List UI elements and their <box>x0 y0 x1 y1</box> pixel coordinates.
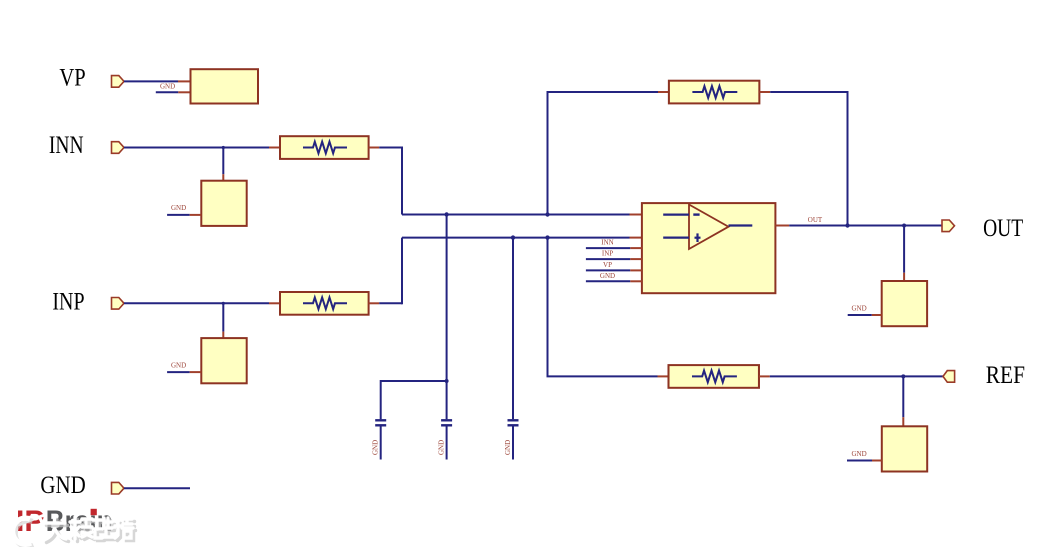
pin OUT stub <box>775 225 789 227</box>
wire U2 pin2 GND stub <box>156 91 191 93</box>
svg-text:VP: VP <box>59 65 85 92</box>
wire R2 to op-amp plus node <box>369 238 642 305</box>
port OUT <box>942 220 955 232</box>
wire GND stub of G4 <box>847 460 882 462</box>
port INN <box>112 142 125 154</box>
op-amp U1 triangle <box>689 205 729 250</box>
wire minus node up to feedback resistor R3 <box>547 92 669 215</box>
port VP <box>112 76 125 88</box>
pin 4 INP stub <box>586 258 642 260</box>
svg-text:OUT: OUT <box>983 215 1023 242</box>
wire GND stub of G1 <box>167 214 201 216</box>
resistor R3 (feedback) <box>669 81 759 104</box>
junction INN/G1 <box>222 146 225 149</box>
svg-text:REF: REF <box>986 362 1025 389</box>
wire OUT node to ground block G3 <box>903 226 905 282</box>
svg-text:GND: GND <box>600 272 615 280</box>
svg-text:INN: INN <box>601 239 613 247</box>
svg-text:GND: GND <box>504 440 512 455</box>
pin 6 GND stub <box>586 280 642 282</box>
capacitor C2 <box>441 420 452 459</box>
svg-text:GND: GND <box>438 440 446 455</box>
svg-text:GND: GND <box>852 450 867 458</box>
wire tee to capacitor C1 <box>381 380 447 419</box>
svg-text:INN: INN <box>49 132 84 159</box>
ground block G3 <box>882 281 927 326</box>
junction minus node / C-branch <box>444 212 448 216</box>
junction feedback top / minus node <box>545 212 549 216</box>
op-amp output line <box>729 224 753 226</box>
capacitor C3 <box>508 420 519 459</box>
logo i-dot red <box>91 509 97 515</box>
power block U2 (VP supply) <box>191 69 259 103</box>
wire plus node down to REF resistor R4 <box>547 238 669 377</box>
pin 5 VP stub <box>586 269 642 271</box>
svg-text:INP: INP <box>52 289 84 316</box>
junction REF / G4 <box>901 374 905 378</box>
svg-text:GND: GND <box>372 440 380 455</box>
wire GND port <box>124 487 190 489</box>
wire R4 to REF port <box>759 375 943 377</box>
wire REF node to ground block G4 <box>902 376 904 426</box>
svg-text:GND: GND <box>40 472 85 499</box>
wire R3 to output node <box>759 91 847 226</box>
capacitor C1 <box>375 420 386 459</box>
resistor R1 (INN series) <box>280 136 369 159</box>
wire op-amp output to OUT port <box>789 225 942 227</box>
svg-text:GND: GND <box>171 361 186 369</box>
wire GND stub of G2 <box>167 371 201 373</box>
wire INN port to R1 <box>124 147 280 149</box>
wire INP port to R2 <box>124 302 280 304</box>
ground block G4 <box>882 426 927 471</box>
junction C1 tee <box>445 379 449 383</box>
svg-text:GND: GND <box>160 83 175 91</box>
op-amp plus input line <box>663 233 700 242</box>
wire R1 to op-amp minus node <box>369 147 642 215</box>
svg-text:INP: INP <box>602 250 613 258</box>
resistor R2 (INP series) <box>280 292 369 315</box>
wire GND stub of G3 <box>848 314 882 316</box>
wire INP to ground block G2 <box>222 303 224 338</box>
svg-text:VP: VP <box>603 261 612 269</box>
junction plus node / C3 branch <box>511 235 515 239</box>
resistor R4 (REF) <box>669 365 759 388</box>
junction INP/G2 <box>222 302 225 305</box>
ground block G1 <box>201 181 246 226</box>
svg-text:OUT: OUT <box>808 216 823 224</box>
wire minus node down to capacitors <box>446 215 448 420</box>
port INP <box>112 298 125 310</box>
pin 3 INN stub <box>586 247 642 249</box>
junction output/feedback <box>845 223 849 227</box>
IPBrain logo <box>16 505 113 538</box>
logo white slash <box>13 514 47 531</box>
port GND <box>112 482 125 494</box>
wire INN to ground block G1 <box>222 148 224 181</box>
op-amp minus input line <box>663 214 699 216</box>
ground block G2 <box>201 338 246 383</box>
port REF <box>943 371 955 383</box>
svg-text:GND: GND <box>171 204 186 212</box>
junction output/G3 <box>902 224 906 228</box>
op-amp U1 body <box>642 203 776 293</box>
wire plus node down to capacitor C3 <box>512 238 514 420</box>
watermark swoosh <box>13 518 34 546</box>
wire VP port to U2 pin1 <box>124 80 191 82</box>
svg-text:GND: GND <box>852 304 867 312</box>
watermark characters <box>44 517 136 543</box>
junction plus node / REF branch <box>545 235 549 239</box>
